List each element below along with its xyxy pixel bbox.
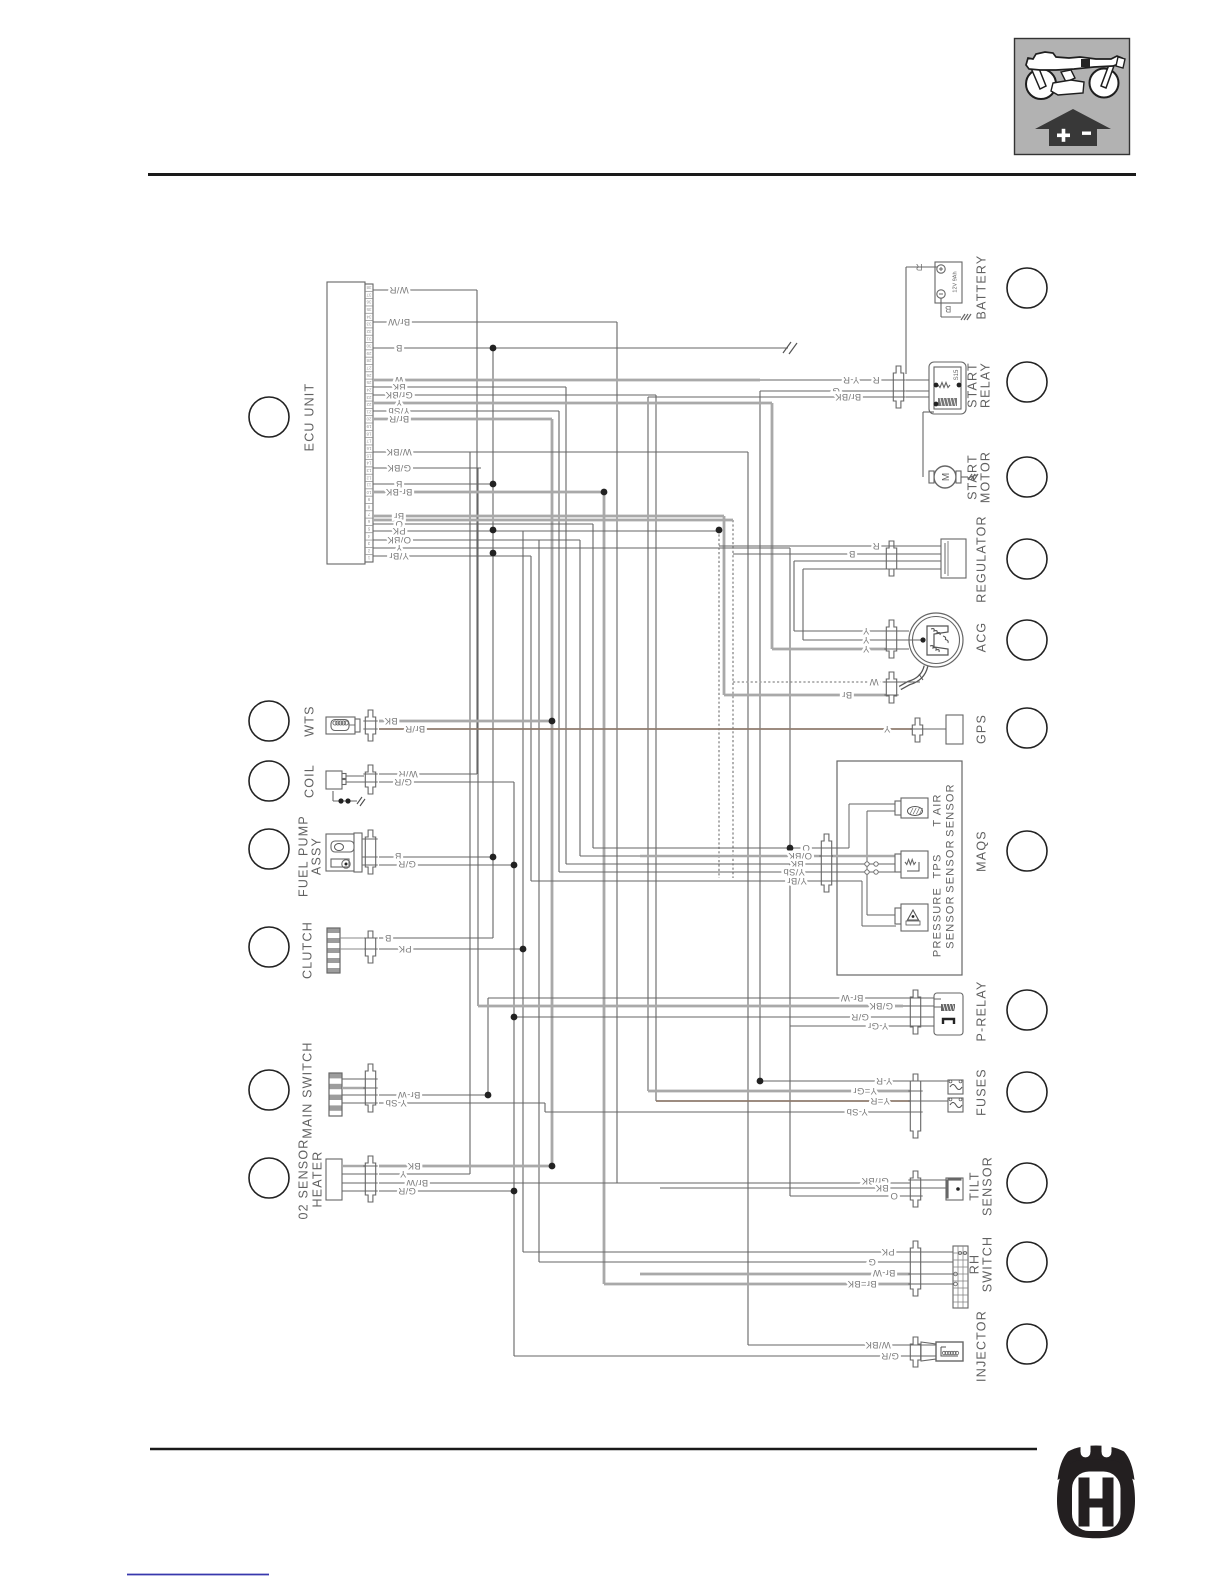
svg-text:RELAY: RELAY: [979, 362, 993, 408]
svg-text:Y/Br: Y/Br: [389, 550, 409, 561]
svg-text:BK: BK: [875, 1182, 889, 1193]
svg-text:PK: PK: [398, 943, 412, 954]
svg-text:14: 14: [366, 461, 371, 466]
svg-text:Y: Y: [399, 1168, 406, 1179]
svg-text:CLUTCH: CLUTCH: [301, 921, 315, 979]
svg-text:Br: Br: [842, 689, 852, 700]
svg-text:ASSY: ASSY: [310, 837, 324, 875]
svg-text:P-RELAY: P-RELAY: [975, 981, 989, 1042]
svg-text:B: B: [396, 342, 403, 353]
svg-text:17: 17: [366, 439, 371, 444]
svg-text:R: R: [915, 261, 922, 272]
svg-text:TPS: TPS: [932, 854, 944, 879]
svg-text:G/BK: G/BK: [869, 1000, 893, 1011]
svg-text:Y-Gr: Y-Gr: [868, 1020, 888, 1031]
svg-text:Y-Sb: Y-Sb: [385, 1097, 406, 1108]
svg-text:24: 24: [366, 387, 371, 392]
svg-text:R: R: [872, 374, 879, 385]
svg-text:28: 28: [366, 358, 371, 363]
svg-text:13: 13: [366, 468, 371, 473]
svg-text:FUEL PUMP: FUEL PUMP: [297, 815, 311, 897]
svg-text:S15: S15: [954, 369, 960, 380]
svg-text:10: 10: [366, 490, 371, 495]
svg-text:ECU UNIT: ECU UNIT: [303, 383, 317, 452]
svg-text:20: 20: [366, 417, 371, 422]
svg-text:RH: RH: [968, 1254, 982, 1274]
svg-text:Y-Sb: Y-Sb: [846, 1106, 867, 1117]
svg-text:Y=Gr: Y=Gr: [853, 1085, 877, 1096]
svg-text:B: B: [385, 932, 392, 943]
svg-text:29: 29: [366, 351, 371, 356]
svg-text:Br/BK: Br/BK: [834, 391, 861, 402]
svg-text:31: 31: [366, 336, 371, 341]
svg-text:GPS: GPS: [975, 714, 989, 744]
svg-text:33: 33: [366, 322, 371, 327]
svg-text:22: 22: [366, 402, 371, 407]
svg-text:G/R: G/R: [398, 858, 416, 869]
svg-text:PK: PK: [881, 1246, 895, 1257]
svg-text:TILT: TILT: [968, 1171, 982, 1201]
svg-text:BK: BK: [384, 715, 398, 726]
svg-text:G/R: G/R: [881, 1350, 899, 1361]
svg-text:SENSOR: SENSOR: [981, 1156, 995, 1216]
svg-text:25: 25: [366, 380, 371, 385]
svg-text:Y: Y: [883, 723, 890, 734]
svg-text:W: W: [869, 676, 878, 687]
svg-text:SENSOR: SENSOR: [945, 895, 957, 949]
svg-text:36: 36: [366, 300, 371, 305]
svg-text:INJECTOR: INJECTOR: [975, 1310, 989, 1382]
svg-text:Br-W: Br-W: [841, 992, 864, 1003]
svg-text:23: 23: [366, 395, 371, 400]
svg-text:02 SENSOR: 02 SENSOR: [297, 1139, 311, 1220]
svg-text:21: 21: [366, 409, 371, 414]
svg-text:REGULATOR: REGULATOR: [975, 515, 989, 602]
svg-text:SWITCH: SWITCH: [981, 1236, 995, 1293]
svg-text:38: 38: [366, 285, 371, 290]
svg-text:B: B: [849, 548, 856, 559]
svg-text:19: 19: [366, 424, 371, 429]
svg-text:Br=BK: Br=BK: [847, 1278, 877, 1289]
svg-text:16: 16: [366, 446, 371, 451]
svg-text:SENSOR: SENSOR: [945, 783, 957, 837]
svg-text:START: START: [966, 362, 980, 408]
svg-text:MAIN SWITCH: MAIN SWITCH: [301, 1041, 315, 1138]
svg-text:R: R: [872, 540, 879, 551]
svg-text:HEATER: HEATER: [311, 1151, 325, 1208]
svg-text:G/R: G/R: [398, 1185, 416, 1196]
svg-text:12V 9Ah: 12V 9Ah: [953, 271, 959, 292]
svg-text:FUSES: FUSES: [975, 1068, 989, 1116]
svg-text:15: 15: [366, 453, 371, 458]
svg-text:Br/R: Br/R: [389, 413, 409, 424]
svg-text:12: 12: [366, 475, 371, 480]
svg-text:MAQS: MAQS: [975, 830, 989, 872]
svg-text:B: B: [945, 303, 952, 314]
svg-text:WTS: WTS: [303, 705, 317, 736]
svg-text:Y-R: Y-R: [876, 1075, 892, 1086]
svg-text:PRESSURE: PRESSURE: [932, 887, 944, 957]
svg-text:O: O: [890, 1190, 898, 1201]
svg-text:T AIR: T AIR: [932, 793, 944, 826]
svg-text:11: 11: [366, 483, 371, 488]
svg-text:35: 35: [366, 307, 371, 312]
svg-text:Br-W: Br-W: [873, 1267, 896, 1278]
svg-text:32: 32: [366, 329, 371, 334]
svg-text:ACG: ACG: [975, 622, 989, 653]
svg-text:Br-BK: Br-BK: [385, 486, 412, 497]
svg-text:Br/W: Br/W: [388, 316, 410, 327]
svg-text:G: G: [868, 1256, 876, 1267]
svg-text:G/BK: G/BK: [387, 462, 411, 473]
svg-text:G/R: G/R: [851, 1011, 869, 1022]
svg-text:Br/R: Br/R: [405, 723, 425, 734]
svg-text:BK: BK: [407, 1160, 421, 1171]
svg-text:27: 27: [366, 366, 371, 371]
svg-text:Y=R: Y=R: [870, 1095, 890, 1106]
svg-text:BATTERY: BATTERY: [975, 255, 989, 320]
svg-text:Y-R: Y-R: [843, 374, 859, 385]
svg-text:M: M: [941, 473, 952, 481]
svg-text:26: 26: [366, 373, 371, 378]
svg-text:MOTOR: MOTOR: [979, 451, 993, 503]
svg-text:W/BK: W/BK: [865, 1339, 891, 1350]
svg-text:SENSOR: SENSOR: [945, 839, 957, 893]
svg-text:Y/Br: Y/Br: [787, 875, 807, 886]
svg-text:W/R: W/R: [389, 284, 408, 295]
svg-text:37: 37: [366, 292, 371, 297]
svg-text:COIL: COIL: [303, 764, 317, 798]
svg-text:34: 34: [366, 314, 371, 319]
svg-text:18: 18: [366, 431, 371, 436]
svg-text:W/BK: W/BK: [386, 446, 412, 457]
svg-text:Y: Y: [862, 643, 869, 654]
svg-text:G/R: G/R: [394, 776, 412, 787]
svg-text:30: 30: [366, 344, 371, 349]
